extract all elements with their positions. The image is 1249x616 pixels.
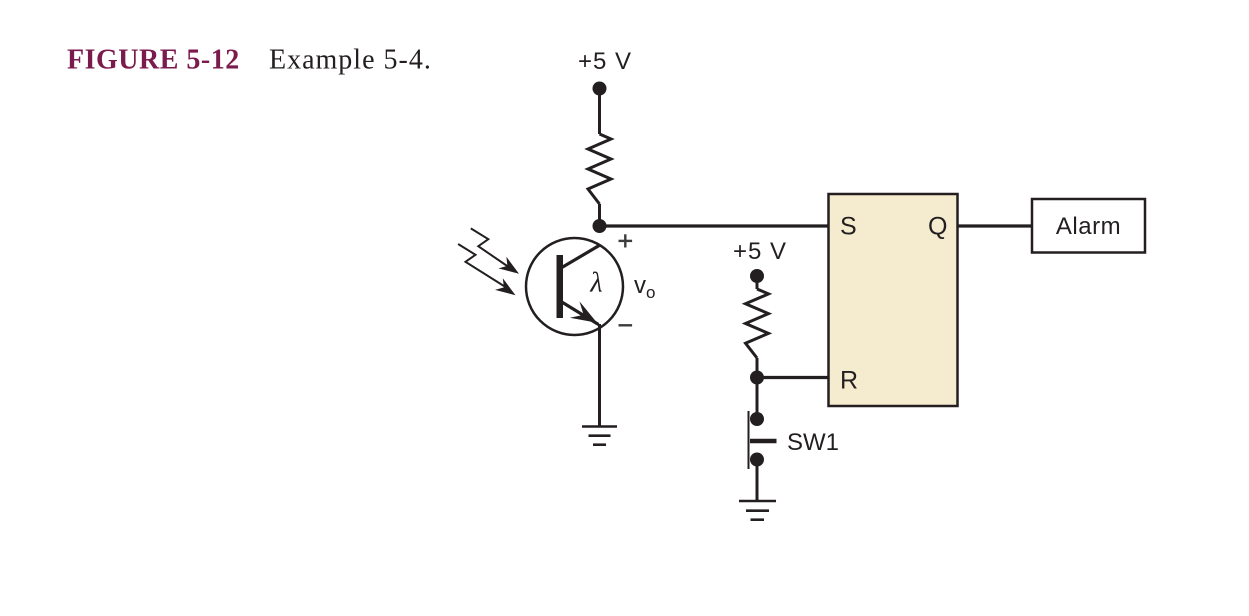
svg-text:SW1: SW1 <box>787 429 839 456</box>
svg-text:+5 V: +5 V <box>733 238 787 265</box>
svg-text:FIGURE 5-12: FIGURE 5-12 <box>67 45 240 76</box>
wire: reset node to switch SW1 <box>756 378 759 420</box>
svg-text:Alarm: Alarm <box>1056 213 1121 240</box>
wire: R2 to reset node <box>756 358 759 378</box>
label - polarity <box>619 324 633 326</box>
alarm block <box>1032 199 1145 253</box>
wire: supply to resistor R2 <box>756 276 759 289</box>
phototransistor Q1 collector lead <box>561 245 600 268</box>
svg-text:vo: vo <box>634 272 655 302</box>
phototransistor Q1 body circle <box>526 238 623 335</box>
resistor R1 <box>588 134 611 204</box>
svg-text:R: R <box>840 367 858 395</box>
wire: reset node to R input <box>757 376 829 379</box>
+5 V supply terminal dot <box>593 82 607 96</box>
svg-text:Q: Q <box>928 213 947 241</box>
wire: R1 to collector node <box>598 204 601 226</box>
switch SW1 bottom terminal dot <box>750 453 764 467</box>
SR latch U1 body <box>829 194 958 406</box>
+5 V supply terminal dot (reset branch) <box>750 269 764 283</box>
wire: collector node to S input <box>600 224 830 227</box>
wire: emitter to ground <box>598 324 601 427</box>
resistor R2 <box>746 289 769 358</box>
light arrow 2 (lower photon arrow) <box>458 244 509 290</box>
phototransistor Q1 emitter lead <box>561 302 599 325</box>
ground symbol (emitter) <box>582 427 617 445</box>
switch SW1 button bar <box>750 439 777 444</box>
svg-text:Example 5-4.: Example 5-4. <box>269 45 432 76</box>
switch SW1 top terminal dot <box>750 412 764 426</box>
phototransistor Q1 emitter arrowhead <box>570 301 597 322</box>
light arrow 1 (upper photon arrow) <box>471 228 513 270</box>
ground symbol (switch) <box>739 501 776 520</box>
wire: switch to ground <box>756 460 759 502</box>
node: reset junction dot <box>750 371 764 385</box>
label + polarity <box>619 234 633 247</box>
wire: Q output to alarm <box>958 224 1033 227</box>
wire: supply to resistor R1 <box>598 89 601 135</box>
phototransistor Q1 base bar <box>557 255 564 318</box>
svg-text:λ: λ <box>589 268 602 299</box>
switch SW1 actuator line <box>748 411 750 469</box>
svg-text:+5 V: +5 V <box>578 48 632 75</box>
node: collector junction dot <box>593 219 607 233</box>
svg-text:S: S <box>840 213 857 241</box>
